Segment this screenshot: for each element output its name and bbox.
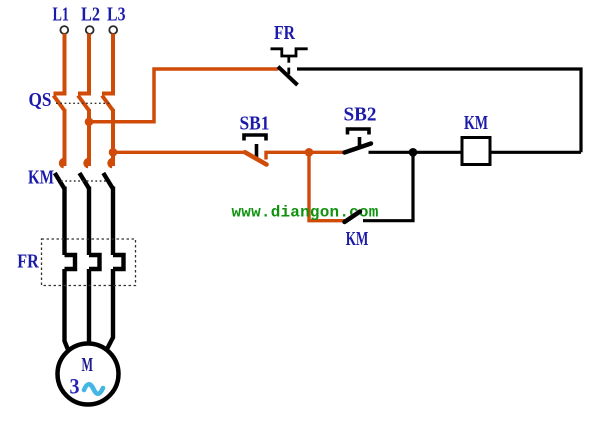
contactor coil KM (462, 138, 490, 165)
switch QS linkage (dashed) (56, 102, 110, 104)
thermal relay FR boundary (dashed box) (42, 239, 136, 286)
svg-text:FR: FR (17, 252, 39, 273)
switch QS pole 3 (102, 94, 115, 111)
wire KM pole 1 to FR heater 1 (62, 187, 66, 256)
wire QS pole 2 to KM pole 2 (87, 109, 91, 166)
wire FR contact to right rail and down to control line (297, 69, 581, 152)
svg-text:M: M (82, 354, 94, 376)
switch QS pole 1 (54, 94, 67, 111)
junction on L3 feeding control circuit (109, 148, 118, 157)
svg-text:SB2: SB2 (344, 105, 377, 126)
junction on L2 feeding control circuit (85, 118, 94, 127)
wire KM pole 2 to FR heater 2 (87, 187, 91, 256)
contactor KM main contact pole 1 (55, 160, 65, 189)
wire L3 down to QS (111, 34, 115, 94)
svg-text:3: 3 (70, 374, 80, 399)
label ~ (phase symbol) (84, 384, 103, 394)
wire FR heater 2 to motor (87, 269, 91, 344)
node L3 (107, 5, 126, 34)
thermal relay FR heater element 2 (89, 255, 100, 269)
node L1 (53, 5, 70, 34)
contactor KM main contact pole 2 (80, 160, 90, 189)
switch QS pole 2 (78, 94, 91, 111)
thermal relay FR NC contact (271, 49, 308, 85)
svg-text:KM: KM (346, 229, 369, 250)
wire coil to right rail (490, 151, 581, 154)
start button SB2 (NO) (345, 129, 463, 153)
wire L3 junction to SB1 (113, 151, 246, 154)
wire L1 down to QS (63, 34, 67, 94)
svg-text:L3: L3 (107, 5, 126, 26)
motor M1 (58, 344, 119, 405)
contactor KM linkage (dashed) (61, 180, 106, 182)
svg-text:KM: KM (28, 168, 54, 189)
stop button SB1 (NC) (244, 135, 310, 165)
wire latch branch down from SB1 junction (309, 152, 345, 220)
junction node after SB1 (latch tap) (305, 148, 314, 157)
wire FR heater 3 to motor (107, 269, 113, 349)
svg-text:FR: FR (274, 23, 296, 44)
wire QS pole 3 to KM pole 3 (111, 109, 115, 166)
wire FR heater 1 to motor (65, 269, 69, 351)
thermal relay FR heater element 1 (65, 255, 76, 269)
svg-text:SB1: SB1 (240, 114, 270, 135)
wire KM pole 3 to FR heater 3 (111, 187, 115, 256)
wire L2 junction to FR contact (89, 69, 279, 122)
wire QS pole 1 to KM pole 1 (63, 109, 67, 166)
svg-text:QS: QS (29, 90, 52, 111)
svg-text:L2: L2 (81, 5, 100, 26)
svg-text:KM: KM (464, 113, 488, 134)
contactor KM auxiliary contact (latch, NO) (345, 152, 414, 222)
junction node after SB2 (latch join) (409, 148, 418, 157)
wire junction to SB2 (309, 151, 345, 154)
contactor KM main contact pole 3 (103, 160, 113, 189)
wire L2 down to QS (87, 34, 91, 94)
svg-text:L1: L1 (53, 5, 70, 26)
node L2 (81, 5, 100, 34)
thermal relay FR heater element 3 (113, 255, 124, 269)
